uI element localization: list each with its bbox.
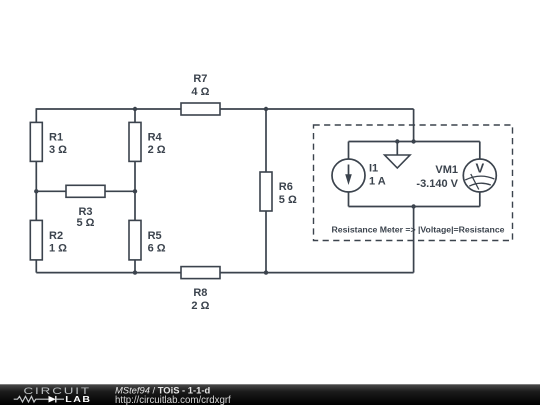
wire box top rail	[349, 141, 480, 143]
node junction R1-R4 top	[133, 107, 137, 111]
resistor R3 body	[66, 185, 105, 197]
ground symbol	[385, 142, 410, 169]
wire R6 column	[265, 109, 267, 273]
svg-text:R8: R8	[193, 287, 207, 299]
footer bar	[0, 384, 540, 405]
current source I1	[332, 159, 365, 192]
logo CircuitLab	[14, 386, 92, 403]
svg-text:5 Ω: 5 Ω	[279, 194, 297, 206]
svg-text:R1: R1	[49, 131, 63, 143]
svg-text:I1: I1	[369, 163, 378, 175]
wire top net: R1/R4 tops through R7 to source box	[36, 108, 413, 110]
dashed box: resistance meter boundary	[314, 125, 513, 241]
svg-text:3 Ω: 3 Ω	[49, 144, 67, 156]
resistor R6 body	[260, 172, 272, 211]
svg-text:6 Ω: 6 Ω	[148, 243, 166, 255]
node junction R1-R3-R2	[34, 189, 38, 193]
wire I1 bottom stub	[348, 192, 350, 207]
node junction output bottom rail	[411, 204, 415, 208]
node junction R7-R6 top	[264, 107, 268, 111]
svg-text:MStef94 / TOiS - 1-1-d: MStef94 / TOiS - 1-1-d	[115, 385, 210, 396]
svg-text:4 Ω: 4 Ω	[191, 86, 209, 98]
resistor R4 body	[129, 122, 141, 161]
wire input drop into meter box	[413, 109, 415, 142]
wire VM1 bottom stub	[479, 192, 481, 207]
wire box bottom rail	[349, 206, 480, 208]
svg-text:V: V	[475, 161, 484, 176]
resistor R7 body	[181, 103, 220, 115]
resistor R5 body	[129, 220, 141, 260]
svg-text:5 Ω: 5 Ω	[77, 217, 95, 229]
svg-text:R7: R7	[193, 73, 207, 85]
wire second column through R4,R5	[134, 109, 136, 273]
resistor R2 body	[30, 220, 42, 260]
wire I1 top stub	[348, 142, 350, 160]
svg-text:R2: R2	[49, 230, 63, 242]
attribution text	[115, 385, 231, 405]
svg-text:1 Ω: 1 Ω	[49, 243, 67, 255]
svg-text:R4: R4	[148, 131, 163, 143]
svg-text:1 A: 1 A	[369, 175, 386, 187]
svg-text:2 Ω: 2 Ω	[191, 300, 209, 312]
svg-text:http://circuitlab.com/crdxgrf: http://circuitlab.com/crdxgrf	[115, 395, 231, 405]
svg-text:-3.140 V: -3.140 V	[416, 178, 458, 190]
wire VM1 top stub	[479, 142, 481, 160]
voltmeter VM1	[463, 159, 496, 192]
wire middle horizontal through R3	[36, 190, 135, 192]
node junction R5-R8 bottom	[133, 270, 137, 274]
node junction R8-R6 bottom	[264, 270, 268, 274]
svg-text:VM1: VM1	[435, 164, 458, 176]
svg-text:Resistance Meter => |Voltage|=: Resistance Meter => |Voltage|=Resistance	[332, 225, 505, 235]
node junction ground tap	[395, 139, 399, 143]
wire bottom net through R8	[36, 272, 413, 274]
wire output drop from meter box	[413, 207, 415, 273]
wire left column through R1,R2	[35, 108, 37, 272]
resistor R8 body	[181, 267, 220, 279]
resistor R1 body	[30, 122, 42, 161]
svg-text:R5: R5	[148, 230, 162, 242]
svg-text:R6: R6	[279, 181, 293, 193]
node junction input top rail	[411, 139, 415, 143]
svg-text:2 Ω: 2 Ω	[148, 144, 166, 156]
node junction R4-R3-R5	[133, 189, 137, 193]
svg-text:LAB: LAB	[65, 395, 91, 404]
